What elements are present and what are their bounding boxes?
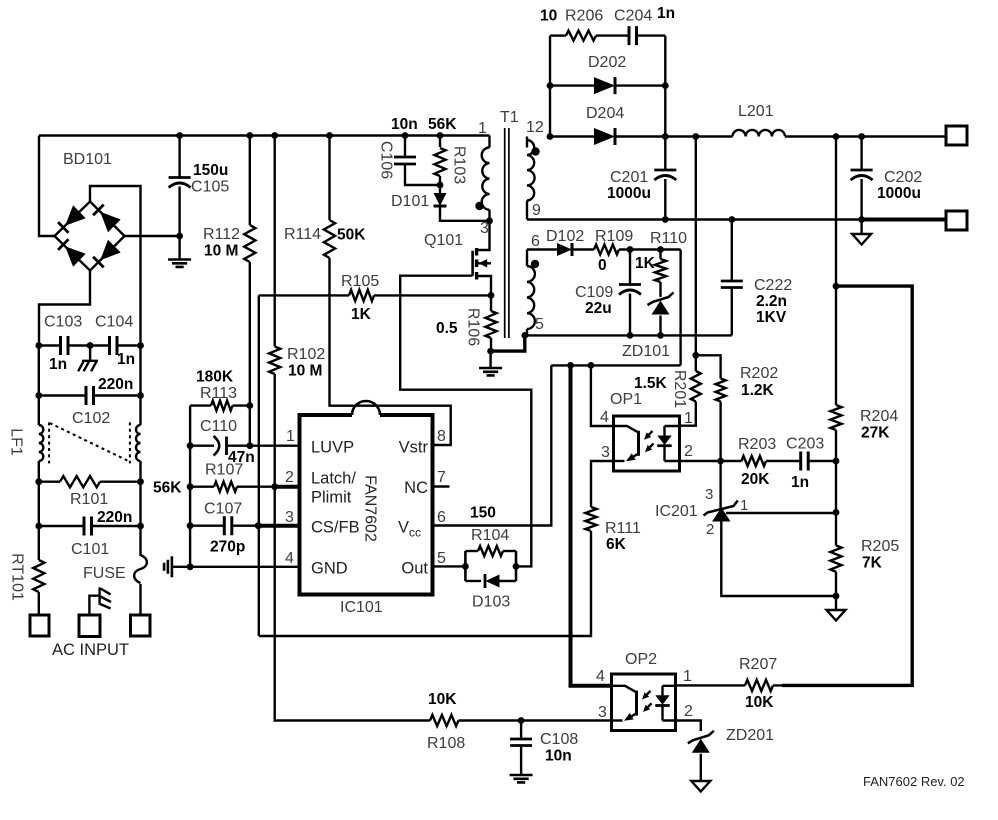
capacitor C110 47n — [190, 445, 214, 447]
T1 aux winding pins 6-5 — [526, 250, 528, 267]
capacitor C108 10n — [520, 721, 522, 740]
common mode choke LF1 — [38, 396, 40, 426]
svg-text:CS/FB: CS/FB — [311, 519, 360, 537]
resistor R205 7K — [835, 461, 837, 545]
ground triangle below C202 — [860, 220, 862, 235]
svg-text:LF1: LF1 — [8, 428, 25, 456]
wire aux row — [527, 248, 557, 250]
svg-text:10K: 10K — [745, 694, 774, 711]
wire output rail to L201 — [665, 135, 732, 137]
wire L201 to output terminal — [785, 135, 946, 137]
svg-text:0.5: 0.5 — [436, 320, 458, 337]
resistor R114 50K — [326, 132, 333, 139]
svg-text:Plimit: Plimit — [311, 489, 352, 507]
inductor L201 — [733, 130, 786, 137]
svg-text:1KV: 1KV — [756, 309, 787, 326]
svg-text:180K: 180K — [196, 369, 234, 386]
svg-text:OP2: OP2 — [625, 651, 657, 668]
resistor R109 0 — [572, 248, 594, 250]
svg-text:1n: 1n — [791, 474, 809, 491]
svg-text:20K: 20K — [741, 471, 770, 488]
resistor R111 6K — [591, 461, 614, 507]
svg-text:6: 6 — [437, 509, 446, 526]
svg-text:R206: R206 — [565, 8, 603, 25]
wire R114 to Vstr pin 8 — [330, 258, 451, 445]
wire HV rail top — [39, 134, 490, 136]
wire OP1 pin2 row — [680, 460, 721, 462]
wire R201 column from output — [695, 137, 697, 356]
transformer T1 core — [505, 128, 509, 338]
wire left column to bridge — [39, 136, 55, 237]
fuse FUSE — [139, 526, 141, 556]
earth symbol at AC input — [89, 596, 99, 615]
T1 secondary winding pins 12-9 — [526, 137, 528, 148]
svg-text:9: 9 — [532, 202, 541, 219]
svg-text:3: 3 — [480, 220, 489, 237]
MOSFET Q101 — [473, 221, 491, 296]
svg-text:1: 1 — [683, 668, 692, 685]
svg-text:FAN7602 Rev. 02: FAN7602 Rev. 02 — [863, 774, 965, 789]
svg-text:OP1: OP1 — [610, 391, 642, 408]
wire aux bottom rail — [525, 334, 732, 336]
svg-text:5: 5 — [437, 550, 446, 567]
AC input terminal 2 earth — [79, 615, 100, 637]
svg-text:56K: 56K — [428, 116, 457, 133]
svg-text:2: 2 — [285, 469, 294, 486]
ground at IC101 GND pin — [164, 556, 172, 577]
svg-text:D102: D102 — [546, 228, 584, 245]
output terminal bottom — [946, 211, 967, 230]
capacitor C106 10n — [402, 132, 409, 139]
svg-text:1: 1 — [286, 428, 295, 445]
svg-text:IC201: IC201 — [655, 503, 698, 520]
diode D102 — [557, 243, 572, 256]
resistor R110 1K — [657, 246, 664, 253]
resistor R102 10M — [271, 132, 278, 139]
svg-text:150u: 150u — [193, 162, 228, 179]
svg-text:D204: D204 — [586, 105, 624, 122]
svg-text:7: 7 — [437, 469, 446, 486]
diode D101 — [439, 185, 441, 193]
resistor R113 180K — [190, 404, 211, 406]
svg-text:R105: R105 — [341, 273, 379, 290]
wire R112 column to pin1 — [249, 406, 251, 446]
svg-text:3: 3 — [598, 704, 607, 721]
svg-text:R113: R113 — [200, 385, 237, 402]
svg-text:C204: C204 — [614, 8, 652, 25]
wire Q101 gate drive — [400, 276, 531, 567]
capacitor C107 270p — [189, 487, 191, 526]
svg-text:R104: R104 — [471, 527, 509, 544]
svg-text:C101: C101 — [71, 541, 109, 558]
svg-text:RT101: RT101 — [9, 553, 26, 601]
capacitor C102 220n — [38, 346, 40, 396]
svg-text:270p: 270p — [210, 539, 245, 556]
svg-text:4: 4 — [596, 668, 605, 685]
wire R113 left down — [189, 406, 191, 446]
capacitor C201 1000u — [654, 169, 676, 172]
earth ground below C103 C104 — [89, 346, 91, 361]
thermistor RT101 — [38, 526, 40, 560]
svg-text:R207: R207 — [739, 656, 777, 673]
svg-text:150: 150 — [470, 505, 496, 522]
svg-text:1n: 1n — [657, 5, 675, 22]
svg-text:2: 2 — [706, 521, 714, 538]
svg-text:GND: GND — [311, 560, 348, 578]
IC101 pin 1 wire — [250, 445, 300, 447]
svg-text:R111: R111 — [605, 520, 641, 537]
svg-text:BD101: BD101 — [63, 151, 112, 168]
ground triangle below R205 — [835, 596, 837, 610]
resistor R105 1K — [259, 294, 349, 296]
svg-text:LUVP: LUVP — [311, 439, 354, 457]
svg-text:R101: R101 — [70, 491, 108, 508]
wire Vcc drop from aux node — [679, 250, 681, 366]
svg-text:C103: C103 — [44, 314, 82, 331]
svg-text:1: 1 — [684, 410, 693, 427]
wire bridge top corner to AC column — [90, 186, 141, 346]
optocoupler OP2 — [612, 674, 676, 731]
wire R108 row — [430, 715, 459, 726]
svg-text:1K: 1K — [635, 255, 656, 272]
resistor R202 1.2K — [696, 355, 721, 378]
svg-text:R109: R109 — [595, 228, 633, 245]
svg-text:1n: 1n — [49, 356, 67, 373]
svg-text:C104: C104 — [95, 314, 133, 331]
svg-text:220n: 220n — [98, 376, 133, 393]
T1 secondary polarity dot — [531, 147, 539, 155]
svg-text:10n: 10n — [391, 116, 418, 133]
svg-text:AC INPUT: AC INPUT — [52, 641, 129, 659]
svg-text:10K: 10K — [428, 691, 457, 708]
wire T1 pin5 to ground node — [491, 335, 525, 351]
wire output bottom rail — [527, 218, 862, 220]
svg-text:3: 3 — [285, 509, 294, 526]
IC101 pin5 Out wire — [433, 565, 466, 567]
svg-text:220n: 220n — [97, 509, 132, 526]
capacitor C105 — [178, 136, 180, 178]
svg-text:R106: R106 — [465, 308, 482, 346]
AC input terminal 1 — [30, 615, 49, 636]
svg-text:C222: C222 — [754, 277, 792, 294]
wire to OP1 pin4 — [591, 365, 614, 426]
wire thick bus to OP2 pin4 — [571, 365, 612, 685]
svg-text:ZD201: ZD201 — [726, 727, 774, 744]
svg-text:D101: D101 — [391, 193, 429, 210]
resistor R204 27K — [835, 286, 837, 405]
capacitor C222 2.2n 1KV — [731, 220, 733, 282]
svg-text:2: 2 — [684, 703, 693, 720]
svg-text:8: 8 — [437, 428, 446, 445]
svg-text:1n: 1n — [117, 351, 135, 368]
svg-text:5: 5 — [535, 316, 544, 333]
svg-text:4: 4 — [285, 550, 294, 567]
resistor R104 150 parallel diode D103 — [465, 546, 516, 588]
svg-text:IC101: IC101 — [340, 599, 383, 616]
svg-text:C202: C202 — [884, 169, 922, 186]
svg-text:NC: NC — [404, 479, 428, 497]
svg-text:1000u: 1000u — [877, 185, 921, 202]
svg-text:6K: 6K — [606, 536, 627, 553]
svg-text:C203: C203 — [786, 436, 824, 453]
diode D202 — [547, 82, 554, 89]
capacitor C101 220n — [38, 482, 40, 526]
svg-text:ZD101: ZD101 — [622, 343, 670, 360]
resistor R107 56K — [189, 446, 191, 487]
svg-text:C107: C107 — [204, 501, 242, 518]
IC101 pin 7 NC stub — [433, 485, 450, 487]
svg-text:FAN7602: FAN7602 — [362, 475, 379, 542]
svg-text:0: 0 — [598, 257, 607, 274]
svg-text:R204: R204 — [860, 408, 898, 425]
svg-text:2: 2 — [684, 443, 693, 460]
svg-text:D202: D202 — [588, 54, 626, 71]
svg-text:4: 4 — [600, 409, 609, 426]
svg-text:C105: C105 — [191, 179, 229, 196]
svg-text:FUSE: FUSE — [83, 565, 126, 582]
svg-text:1: 1 — [478, 120, 487, 137]
svg-text:R103: R103 — [451, 146, 468, 184]
primary ground below R106 — [489, 351, 491, 368]
wire thick feedback loop — [782, 286, 912, 685]
svg-text:Q101: Q101 — [424, 232, 463, 249]
IC IC101 FAN7602 body — [300, 401, 433, 595]
svg-text:3: 3 — [705, 486, 713, 503]
svg-text:C109: C109 — [575, 284, 613, 301]
svg-text:7K: 7K — [862, 555, 883, 572]
capacitor C203 1n — [801, 452, 809, 471]
svg-text:1.2K: 1.2K — [741, 382, 775, 399]
wire snubber top row — [550, 34, 566, 36]
wire CS/FB column — [258, 295, 260, 636]
svg-text:10 M: 10 M — [288, 363, 322, 380]
wire snubber verticals — [549, 36, 551, 137]
svg-text:10 M: 10 M — [204, 243, 238, 260]
resistor R206 10 — [566, 31, 596, 41]
capacitor C204 1n — [629, 26, 637, 45]
svg-text:R201: R201 — [671, 370, 688, 408]
svg-text:22u: 22u — [585, 300, 612, 317]
zener diode ZD101 — [648, 293, 674, 306]
diode D204 — [547, 133, 554, 140]
svg-text:1: 1 — [740, 497, 748, 514]
svg-text:56K: 56K — [153, 480, 182, 497]
bridge rectifier BD101 — [55, 202, 125, 271]
capacitor C103 1n — [39, 344, 61, 346]
svg-text:C201: C201 — [610, 169, 648, 186]
svg-text:R108: R108 — [427, 735, 465, 752]
AC input terminal 3 — [131, 615, 151, 636]
svg-text:Vstr: Vstr — [399, 439, 429, 457]
svg-text:R107: R107 — [205, 462, 243, 479]
svg-text:R202: R202 — [740, 365, 778, 382]
ground below C105 — [178, 236, 180, 260]
wire Vcc routing — [551, 364, 680, 366]
svg-text:10n: 10n — [545, 748, 572, 765]
resistor R201 1.5K — [695, 355, 697, 371]
svg-text:1K: 1K — [351, 306, 372, 323]
svg-text:R114: R114 — [284, 226, 321, 243]
svg-text:27K: 27K — [861, 425, 890, 442]
svg-text:T1: T1 — [500, 109, 519, 126]
resistor R106 0.5 — [490, 295, 492, 311]
output terminal top — [946, 126, 967, 145]
zener diode ZD201 — [676, 721, 701, 732]
wire bridge right corner to C105 ground node — [125, 235, 180, 237]
svg-text:1000u: 1000u — [607, 185, 651, 202]
T1 primary winding pins 1-3 — [488, 136, 490, 148]
shunt regulator IC201 TL431 — [704, 461, 837, 596]
capacitor C104 1n — [90, 344, 109, 346]
resistor R101 — [38, 461, 40, 482]
optocoupler OP1 — [614, 416, 680, 471]
resistor R203 20K — [721, 460, 742, 462]
svg-text:Out: Out — [401, 560, 428, 578]
resistor R207 10K — [676, 684, 746, 686]
svg-text:C102: C102 — [72, 410, 110, 427]
svg-text:R203: R203 — [738, 436, 776, 453]
resistor R112 10M — [246, 132, 253, 139]
wire Latch column down to R108 row — [275, 487, 430, 721]
svg-text:50K: 50K — [337, 227, 366, 244]
resistor R103 56K — [437, 132, 444, 139]
svg-text:12: 12 — [526, 119, 544, 136]
svg-text:Latch/: Latch/ — [311, 470, 356, 488]
svg-text:1.5K: 1.5K — [634, 375, 668, 392]
svg-text:C110: C110 — [200, 418, 237, 435]
capacitor C109 22u — [627, 246, 634, 253]
svg-text:C106: C106 — [378, 141, 395, 179]
T1 primary polarity dot — [475, 202, 483, 210]
svg-text:2.2n: 2.2n — [756, 293, 787, 310]
T1 aux polarity dot — [531, 260, 539, 268]
svg-text:6: 6 — [531, 233, 540, 250]
svg-text:R205: R205 — [861, 538, 899, 555]
svg-text:R110: R110 — [650, 230, 687, 247]
capacitor C202 1000u — [860, 137, 862, 171]
wire bridge bottom corner to AC column — [39, 271, 90, 346]
svg-text:R112: R112 — [203, 226, 240, 243]
svg-text:C108: C108 — [540, 731, 578, 748]
svg-text:D103: D103 — [472, 594, 510, 611]
svg-text:R102: R102 — [287, 346, 325, 363]
svg-text:L201: L201 — [738, 103, 774, 120]
wire output sense column — [835, 137, 837, 287]
svg-text:10: 10 — [540, 8, 557, 25]
svg-text:3: 3 — [601, 444, 610, 461]
